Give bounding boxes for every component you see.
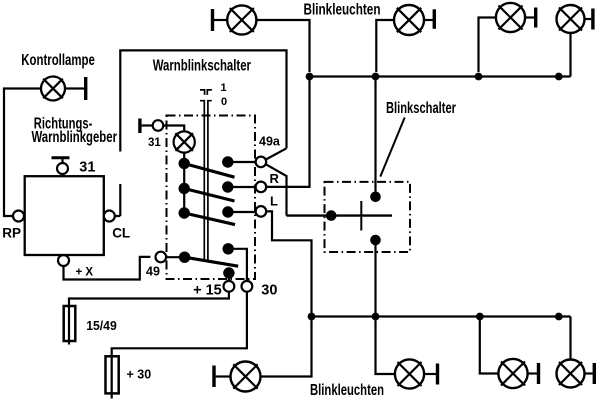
- terminal 30: [242, 281, 253, 292]
- node top bus / lamp E4 junction: [555, 73, 563, 81]
- svg-text:15/49: 15/49: [86, 318, 117, 333]
- svg-text:Blinkleuchten: Blinkleuchten: [310, 382, 384, 399]
- wire row1 fixed contact to 49a: [228, 161, 256, 163]
- Blinkschalter moving contact line: [287, 214, 393, 216]
- svg-text:Blinkschalter: Blinkschalter: [386, 100, 456, 117]
- wire lamp E4 to top bus: [569, 33, 571, 77]
- switch bar row3: [184, 213, 235, 225]
- wire lamp E6 to bottom bus: [480, 317, 499, 374]
- contact dot row2 moving: [179, 183, 190, 194]
- fuse 15/49: [64, 306, 76, 341]
- lamp E2 (top second blink lamp): [394, 5, 436, 35]
- svg-text:Blinkleuchten: Blinkleuchten: [304, 1, 381, 18]
- terminal RP of flasher: [13, 211, 24, 222]
- terminal 49a: [256, 157, 267, 168]
- wire bottom bus (left turn lamps): [312, 315, 571, 317]
- switch bar row1: [184, 164, 234, 178]
- wire lamp E5 to bottom bus: [376, 317, 395, 375]
- svg-text:49: 49: [146, 264, 160, 278]
- wire lamp to moving contacts: [183, 153, 185, 213]
- contact dot 30 fixed: [223, 243, 234, 254]
- contact dot Blinkschalter top: [370, 192, 381, 203]
- node bottom bus / lamp E6 junction: [476, 313, 484, 321]
- hazard switch actuator shaft: [200, 101, 212, 261]
- lamp H (Kontrollampe indicator): [41, 77, 87, 101]
- wire terminal +15 to fuse 15/49: [69, 292, 229, 345]
- hazard switch actuator position marker (pos 1): [200, 90, 212, 95]
- svg-text:+ 15: + 15: [193, 283, 222, 299]
- flasher unit box (Richtungs-Warnblinkgeber): [25, 176, 104, 255]
- switch bar row4: [185, 257, 239, 266]
- wire +15 contact to terminal +15: [228, 273, 230, 281]
- contact dot +15 fixed: [223, 267, 234, 278]
- wire lamp E2 to top bus: [376, 20, 394, 72]
- node top bus / Blinkschalter junction: [372, 73, 380, 81]
- contact dot row2 fixed: [222, 181, 233, 192]
- wire lamp E7 to bottom bus: [569, 317, 571, 360]
- wire Kontrollampe to terminal RP: [4, 89, 41, 217]
- terminal CL of flasher: [104, 211, 115, 222]
- contact dot row1 moving: [179, 158, 190, 169]
- lamp E8 (bottom left blink lamp): [212, 362, 260, 392]
- terminal 49: [156, 252, 167, 263]
- terminal 31 of flasher (ground symbol on top): [52, 158, 70, 174]
- wire lamp E8 to bottom bus: [261, 317, 312, 377]
- node top bus / lamp E3 junction: [475, 73, 483, 81]
- lamp E3 (top third blink lamp): [496, 3, 538, 32]
- svg-text:Kontrollampe: Kontrollampe: [21, 52, 95, 69]
- node bottom bus / Blinkschalter junction: [372, 313, 380, 321]
- wire terminal 30 to fuse +30: [112, 292, 247, 399]
- terminal R: [256, 182, 267, 193]
- wire top bus to Blinkschalter top contact: [374, 80, 376, 197]
- fuse +30: [106, 356, 119, 393]
- wire lamp E3 to top bus: [479, 18, 496, 73]
- svg-text:Warnblinkgeber: Warnblinkgeber: [32, 129, 118, 146]
- node top bus / R riser junction: [306, 73, 314, 81]
- svg-text:49a: 49a: [259, 134, 281, 148]
- svg-text:CL: CL: [112, 226, 130, 241]
- svg-text:31: 31: [148, 137, 161, 149]
- contact dot Blinkschalter bottom: [370, 235, 381, 246]
- wire CL to hazard switch 49a (label loop left+top+right): [115, 50, 287, 216]
- wire Blinkschalter bottom contact to bottom bus: [374, 240, 376, 313]
- hazard switch enclosure (dash-dot box): [167, 116, 256, 280]
- svg-text:30: 30: [261, 283, 277, 299]
- svg-text:Warnblinkschalter: Warnblinkschalter: [153, 58, 251, 75]
- terminal +X of flasher: [58, 255, 69, 266]
- svg-text:0: 0: [221, 96, 227, 108]
- lamp E6 (bottom third blink lamp): [498, 359, 540, 388]
- wire L to bottom bus: [266, 211, 311, 313]
- wire row3 fixed contact to L: [228, 211, 256, 213]
- wire 49 to row4 moving contact: [166, 256, 185, 258]
- node bottom bus / L wire junction: [308, 313, 316, 321]
- terminal +15: [224, 281, 235, 292]
- wire top bus (right turn lamps): [310, 75, 571, 77]
- contact dot Blinkschalter left (common): [326, 210, 337, 221]
- svg-text:+ 30: + 30: [127, 368, 152, 382]
- wire 30 contact to terminal 30: [228, 249, 247, 281]
- lamp in hazard switch: [174, 131, 195, 152]
- lamp E7 (bottom right blink lamp): [557, 360, 597, 388]
- terminal 31 of hazard switch: [138, 119, 163, 134]
- lamp E5 (bottom second blink lamp): [395, 359, 439, 388]
- Blinkschalter contact tick: [360, 201, 362, 231]
- wire 49a upper diagonal to label loop: [266, 148, 287, 159]
- node bottom bus / lamp E7 junction: [555, 313, 563, 321]
- svg-text:L: L: [270, 194, 278, 209]
- wire R to top bus: [266, 80, 309, 187]
- wire lamp E1 to top bus: [256, 20, 309, 72]
- wire row2 fixed contact to R: [228, 186, 256, 188]
- leader line Blinkschalter label: [380, 118, 404, 177]
- svg-text:RP: RP: [2, 226, 21, 241]
- svg-text:1: 1: [221, 82, 227, 94]
- svg-text:31: 31: [79, 160, 95, 176]
- terminal L: [256, 206, 267, 217]
- wire 49a lower diagonal to Blinkschalter common: [266, 164, 287, 215]
- lamp E4 (top right blink lamp): [557, 5, 595, 33]
- wire 31 to switch lamp: [163, 126, 184, 132]
- switch bar row2: [184, 189, 234, 202]
- lamp E1 (top left blink lamp): [211, 5, 257, 34]
- contact dot row3 moving: [179, 207, 190, 218]
- svg-text:R: R: [270, 171, 280, 186]
- contact dot row4 moving: [179, 252, 190, 263]
- turn signal switch enclosure (dash-dot box): [325, 182, 411, 252]
- svg-text:+ X: + X: [76, 267, 94, 279]
- wire +X to terminal 49: [64, 257, 151, 280]
- contact dot row1 fixed: [222, 156, 233, 167]
- contact dot row3 fixed: [222, 206, 233, 217]
